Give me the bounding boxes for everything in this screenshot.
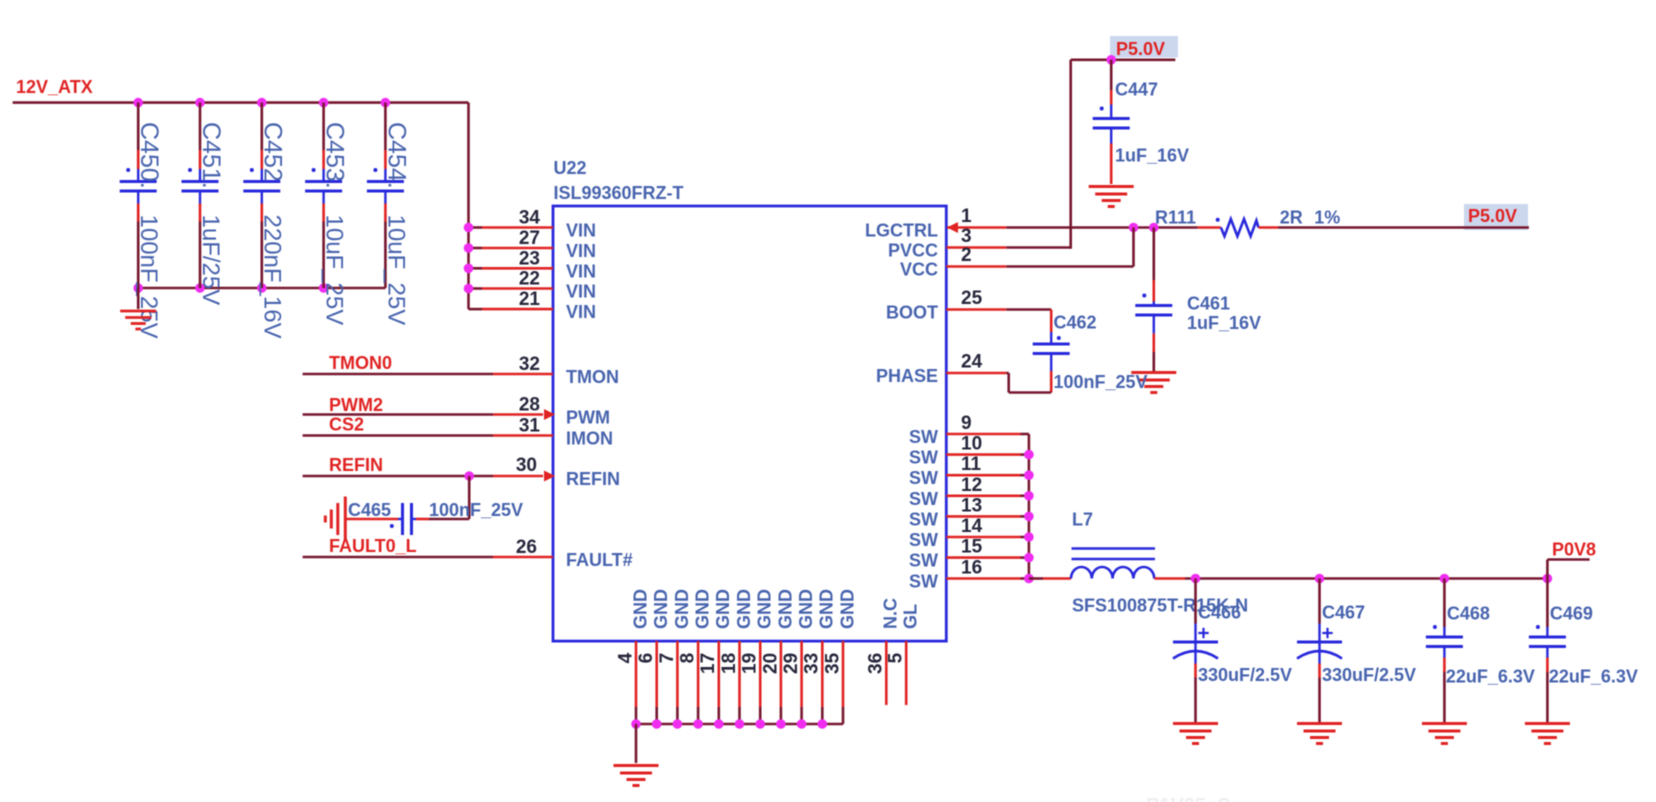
- pin 11 SW: [909, 454, 1029, 488]
- junction dot P5.0V/C447: [1106, 55, 1116, 65]
- svg-text:20: 20: [760, 653, 781, 674]
- svg-text:5: 5: [886, 652, 907, 663]
- svg-text:R111: R111: [1155, 208, 1196, 228]
- svg-text:18: 18: [719, 653, 740, 674]
- pin 4 GND: [615, 589, 650, 724]
- net label PWM2: [329, 395, 383, 415]
- svg-text:11: 11: [961, 454, 982, 475]
- svg-text:C453.: C453.: [321, 122, 349, 189]
- svg-text:29: 29: [781, 653, 802, 674]
- capacitor C450: [120, 103, 163, 339]
- svg-text:SW: SW: [909, 509, 938, 529]
- svg-text:22: 22: [519, 269, 540, 290]
- pin 8 GND: [678, 589, 713, 724]
- svg-text:34: 34: [519, 208, 541, 229]
- junction dots on 12V_ATX rail: [133, 98, 390, 108]
- svg-text:330uF/2.5V: 330uF/2.5V: [1198, 665, 1292, 685]
- svg-text:27: 27: [519, 228, 540, 249]
- svg-text:100nF_25V: 100nF_25V: [1054, 372, 1148, 392]
- svg-text:BOOT: BOOT: [886, 303, 938, 323]
- junction dots VIN bus: [464, 223, 474, 294]
- junction dots GND bus: [631, 719, 827, 729]
- pin 30 REFIN input arrow: [516, 455, 620, 489]
- wire VCC up to LGCTRL net: [1006, 228, 1133, 267]
- svg-text:SW: SW: [909, 572, 938, 592]
- svg-text:9: 9: [961, 413, 972, 434]
- net label 12V_ATX: [16, 77, 93, 97]
- pin 28 PWM input arrow: [519, 395, 610, 428]
- svg-text:C452: C452: [259, 122, 287, 182]
- svg-text:100nF_25V: 100nF_25V: [429, 500, 523, 520]
- wire FAULT0_L: [303, 556, 553, 559]
- svg-text:1uF/25V: 1uF/25V: [197, 215, 224, 306]
- capacitor C462: [1033, 310, 1148, 393]
- capacitor C466 polarized: [1173, 579, 1292, 723]
- capacitor C454: [367, 103, 410, 326]
- svg-text:SW: SW: [909, 551, 938, 571]
- svg-text:C466: C466: [1198, 603, 1241, 623]
- capacitor C465: [345, 500, 523, 535]
- svg-text:22uF_6.3V: 22uF_6.3V: [1446, 667, 1535, 687]
- svg-text:1uF_16V: 1uF_16V: [1187, 313, 1261, 333]
- svg-text:100nF_25V: 100nF_25V: [135, 215, 162, 339]
- pin 27 VIN: [469, 228, 597, 261]
- svg-text:C462: C462: [1054, 313, 1097, 333]
- svg-text:10uF_25V: 10uF_25V: [321, 215, 348, 326]
- pin 2 VCC: [900, 245, 1006, 280]
- IC U22 ISL99360FRZ-T body: [553, 158, 946, 641]
- wire LGCTRL net to R111: [947, 226, 1221, 229]
- svg-text:4: 4: [615, 652, 636, 663]
- pin 20 GND: [760, 589, 795, 724]
- svg-text:13: 13: [961, 495, 982, 516]
- svg-text:VIN: VIN: [566, 221, 596, 241]
- pin 13 SW: [909, 495, 1029, 529]
- svg-text:30: 30: [516, 455, 537, 476]
- net label TMON0: [329, 353, 392, 373]
- ground C465 (rotated left): [325, 497, 345, 542]
- capacitor C453: [305, 103, 348, 326]
- svg-text:ISL99360FRZ-T: ISL99360FRZ-T: [554, 183, 684, 203]
- net label CS2: [329, 415, 364, 435]
- pin 1 LGCTRL input arrow: [865, 206, 972, 241]
- capacitor C451: [182, 103, 225, 306]
- wire SW bus vertical: [1028, 434, 1031, 579]
- svg-text:GL: GL: [901, 604, 921, 629]
- svg-text:LGCTRL: LGCTRL: [865, 221, 938, 241]
- pin 12 SW: [909, 475, 1029, 509]
- net label FAULT0_L: [329, 536, 417, 556]
- pin 7 GND: [657, 589, 692, 724]
- svg-text:8: 8: [678, 653, 699, 664]
- svg-text:14: 14: [961, 516, 983, 537]
- pin 36 N.C: [866, 598, 901, 705]
- pin 34 VIN: [469, 208, 597, 241]
- svg-text:10: 10: [961, 434, 982, 455]
- svg-text:GND: GND: [755, 589, 775, 629]
- pin 31 IMON: [519, 416, 613, 449]
- svg-text:35: 35: [822, 652, 843, 674]
- svg-text:GND: GND: [672, 589, 692, 629]
- svg-text:GND: GND: [775, 589, 795, 629]
- svg-text:26: 26: [516, 537, 537, 558]
- svg-text:16: 16: [961, 558, 982, 579]
- svg-text:22uF_6.3V: 22uF_6.3V: [1549, 667, 1638, 687]
- svg-text:P5.0V: P5.0V: [1468, 206, 1517, 226]
- svg-text:GND: GND: [693, 589, 713, 629]
- wire VIN vertical bus: [467, 103, 470, 310]
- svg-text:N.C: N.C: [881, 598, 901, 629]
- svg-text:CS2: CS2: [329, 415, 364, 435]
- net label P5.0V (top): [1110, 36, 1178, 59]
- ground C468: [1422, 724, 1467, 744]
- svg-text:23: 23: [519, 248, 540, 269]
- wire 12V_ATX bottom bus: [138, 287, 385, 290]
- junction dots on 12V_ATX bottom bus: [133, 283, 328, 293]
- svg-text:FAULT#: FAULT#: [566, 550, 633, 570]
- pin 24 PHASE: [876, 352, 1006, 387]
- wire R111 to P5.0V: [1259, 226, 1529, 229]
- svg-text:PHASE: PHASE: [876, 366, 938, 386]
- pin 3 PVCC: [888, 226, 1006, 261]
- svg-text:330uF/2.5V: 330uF/2.5V: [1322, 665, 1416, 685]
- svg-text:TMON: TMON: [566, 367, 619, 387]
- ground C466: [1173, 724, 1218, 744]
- svg-text:VIN: VIN: [566, 302, 596, 322]
- pin 21 VIN: [469, 289, 597, 322]
- ground C447: [1089, 187, 1134, 207]
- svg-text:SW: SW: [909, 489, 938, 509]
- svg-text:GND: GND: [817, 589, 837, 629]
- svg-text:P0V8: P0V8: [1552, 540, 1596, 560]
- svg-text:C447: C447: [1115, 80, 1158, 100]
- pin 10 SW: [909, 434, 1029, 468]
- wire REFIN to C465: [416, 476, 469, 519]
- svg-text:GND: GND: [651, 589, 671, 629]
- pin 29 GND: [781, 589, 816, 724]
- svg-text:C469: C469: [1550, 604, 1593, 624]
- svg-text:C454.: C454.: [382, 122, 410, 189]
- svg-text:31: 31: [519, 416, 541, 437]
- capacitor C468: [1426, 579, 1535, 723]
- ground 12V_ATX bank: [120, 288, 156, 329]
- pin 19 GND: [740, 589, 775, 724]
- svg-text:FAULT0_L: FAULT0_L: [329, 536, 417, 556]
- svg-text:2R: 2R: [1280, 208, 1303, 228]
- svg-text:3: 3: [961, 226, 972, 247]
- svg-text:SW: SW: [909, 468, 938, 488]
- svg-text:VIN: VIN: [566, 282, 596, 302]
- pin 23 VIN: [469, 248, 597, 281]
- svg-text:6: 6: [636, 653, 657, 664]
- svg-text:C467: C467: [1322, 603, 1365, 623]
- node faint cropped label bottom: [1146, 795, 1231, 802]
- wire PHASE to C462 bottom: [1006, 373, 1051, 393]
- capacitor C452: [243, 103, 286, 339]
- junction dots SW bus: [1024, 450, 1034, 583]
- wire CS2: [303, 434, 553, 437]
- svg-text:2: 2: [961, 245, 972, 266]
- ground C461: [1131, 373, 1176, 393]
- pin 16 SW: [909, 558, 1029, 592]
- pin 9 SW: [909, 413, 1029, 447]
- wire BOOT to C462: [1006, 308, 1051, 311]
- svg-text:220nF_16V: 220nF_16V: [259, 215, 286, 339]
- resistor R111: [1155, 208, 1340, 237]
- svg-text:28: 28: [519, 395, 540, 416]
- svg-text:PWM2: PWM2: [329, 395, 383, 415]
- pin 6 GND: [636, 589, 671, 724]
- svg-text:33: 33: [802, 653, 823, 674]
- wire PVCC to P5.0V: [1006, 60, 1070, 249]
- capacitor C461: [1135, 228, 1261, 372]
- svg-text:C465: C465: [348, 500, 391, 520]
- pin 32 TMON: [519, 354, 619, 387]
- svg-text:VCC: VCC: [900, 260, 938, 280]
- svg-text:P5.0V: P5.0V: [1116, 39, 1165, 59]
- junction dot REFIN/C465: [464, 471, 474, 481]
- svg-text:L7: L7: [1072, 510, 1093, 530]
- svg-text:SW: SW: [909, 448, 938, 468]
- svg-text:24: 24: [961, 352, 983, 373]
- svg-text:GND: GND: [837, 589, 857, 629]
- wire PWM2: [303, 413, 543, 416]
- svg-text:P1V05_S: P1V05_S: [1146, 795, 1231, 802]
- svg-text:15: 15: [961, 537, 983, 558]
- wire P5.0V top rail: [1071, 58, 1176, 61]
- svg-text:17: 17: [698, 653, 719, 674]
- pin 17 GND: [698, 589, 733, 724]
- capacitor C469: [1529, 579, 1638, 723]
- svg-text:GND: GND: [796, 589, 816, 629]
- net label REFIN: [329, 455, 383, 475]
- svg-text:19: 19: [740, 653, 761, 674]
- svg-text:U22: U22: [554, 158, 587, 178]
- pin 35 GND: [822, 589, 857, 724]
- svg-text:1: 1: [961, 206, 972, 227]
- capacitor C447: [1093, 60, 1189, 184]
- pin 25 BOOT: [886, 288, 1006, 323]
- pin 15 SW: [909, 537, 1029, 571]
- wire GND bottom bus: [636, 723, 843, 726]
- svg-text:VIN: VIN: [566, 261, 596, 281]
- svg-text:GND: GND: [734, 589, 754, 629]
- net label P0V8: [1547, 540, 1596, 579]
- svg-text:C468: C468: [1447, 604, 1490, 624]
- svg-text:32: 32: [519, 354, 540, 375]
- svg-text:PVCC: PVCC: [888, 241, 938, 261]
- svg-text:36: 36: [866, 653, 887, 674]
- pin 33 GND: [802, 589, 837, 724]
- svg-text:10uF_25V: 10uF_25V: [382, 215, 409, 326]
- svg-text:REFIN: REFIN: [329, 455, 383, 475]
- svg-text:1%: 1%: [1314, 208, 1340, 228]
- svg-text:C461: C461: [1187, 294, 1230, 314]
- svg-text:21: 21: [519, 289, 541, 310]
- svg-text:IMON: IMON: [566, 429, 613, 449]
- inductor L7 SFS100875T-R15K-N: [1029, 510, 1248, 616]
- svg-text:TMON0: TMON0: [329, 353, 392, 373]
- svg-text:SW: SW: [909, 427, 938, 447]
- capacitor C467 polarized: [1297, 579, 1416, 723]
- pin 14 SW: [909, 516, 1029, 550]
- wire 12V_ATX top rail: [13, 101, 469, 104]
- junction dots P0V8 rail: [1191, 574, 1553, 584]
- svg-text:GND: GND: [713, 589, 733, 629]
- svg-text:REFIN: REFIN: [566, 469, 620, 489]
- pin 22 VIN: [469, 269, 597, 302]
- ground C469: [1525, 724, 1570, 744]
- wire P0V8 output rail: [1185, 577, 1547, 580]
- wire TMON0: [303, 373, 553, 376]
- svg-text:PWM: PWM: [566, 408, 610, 428]
- wire REFIN: [303, 475, 543, 478]
- net label P5.0V (right): [1464, 204, 1529, 230]
- pin 26 FAULT#: [516, 537, 633, 570]
- pin 18 GND: [719, 589, 754, 724]
- pin 5 GL: [886, 604, 921, 705]
- svg-text:C450.: C450.: [135, 122, 163, 189]
- ground U22 GND pins: [614, 724, 659, 786]
- svg-text:GND: GND: [630, 589, 650, 629]
- svg-text:25: 25: [961, 288, 983, 309]
- svg-text:VIN: VIN: [566, 241, 596, 261]
- junction dots LGCTRL net: [1129, 223, 1159, 233]
- svg-text:12: 12: [961, 475, 982, 496]
- svg-text:SW: SW: [909, 530, 938, 550]
- svg-text:C451.: C451.: [197, 122, 225, 189]
- svg-text:7: 7: [657, 653, 678, 664]
- svg-text:1uF_16V: 1uF_16V: [1115, 146, 1189, 166]
- ground C467: [1297, 724, 1342, 744]
- svg-text:12V_ATX: 12V_ATX: [16, 77, 93, 97]
